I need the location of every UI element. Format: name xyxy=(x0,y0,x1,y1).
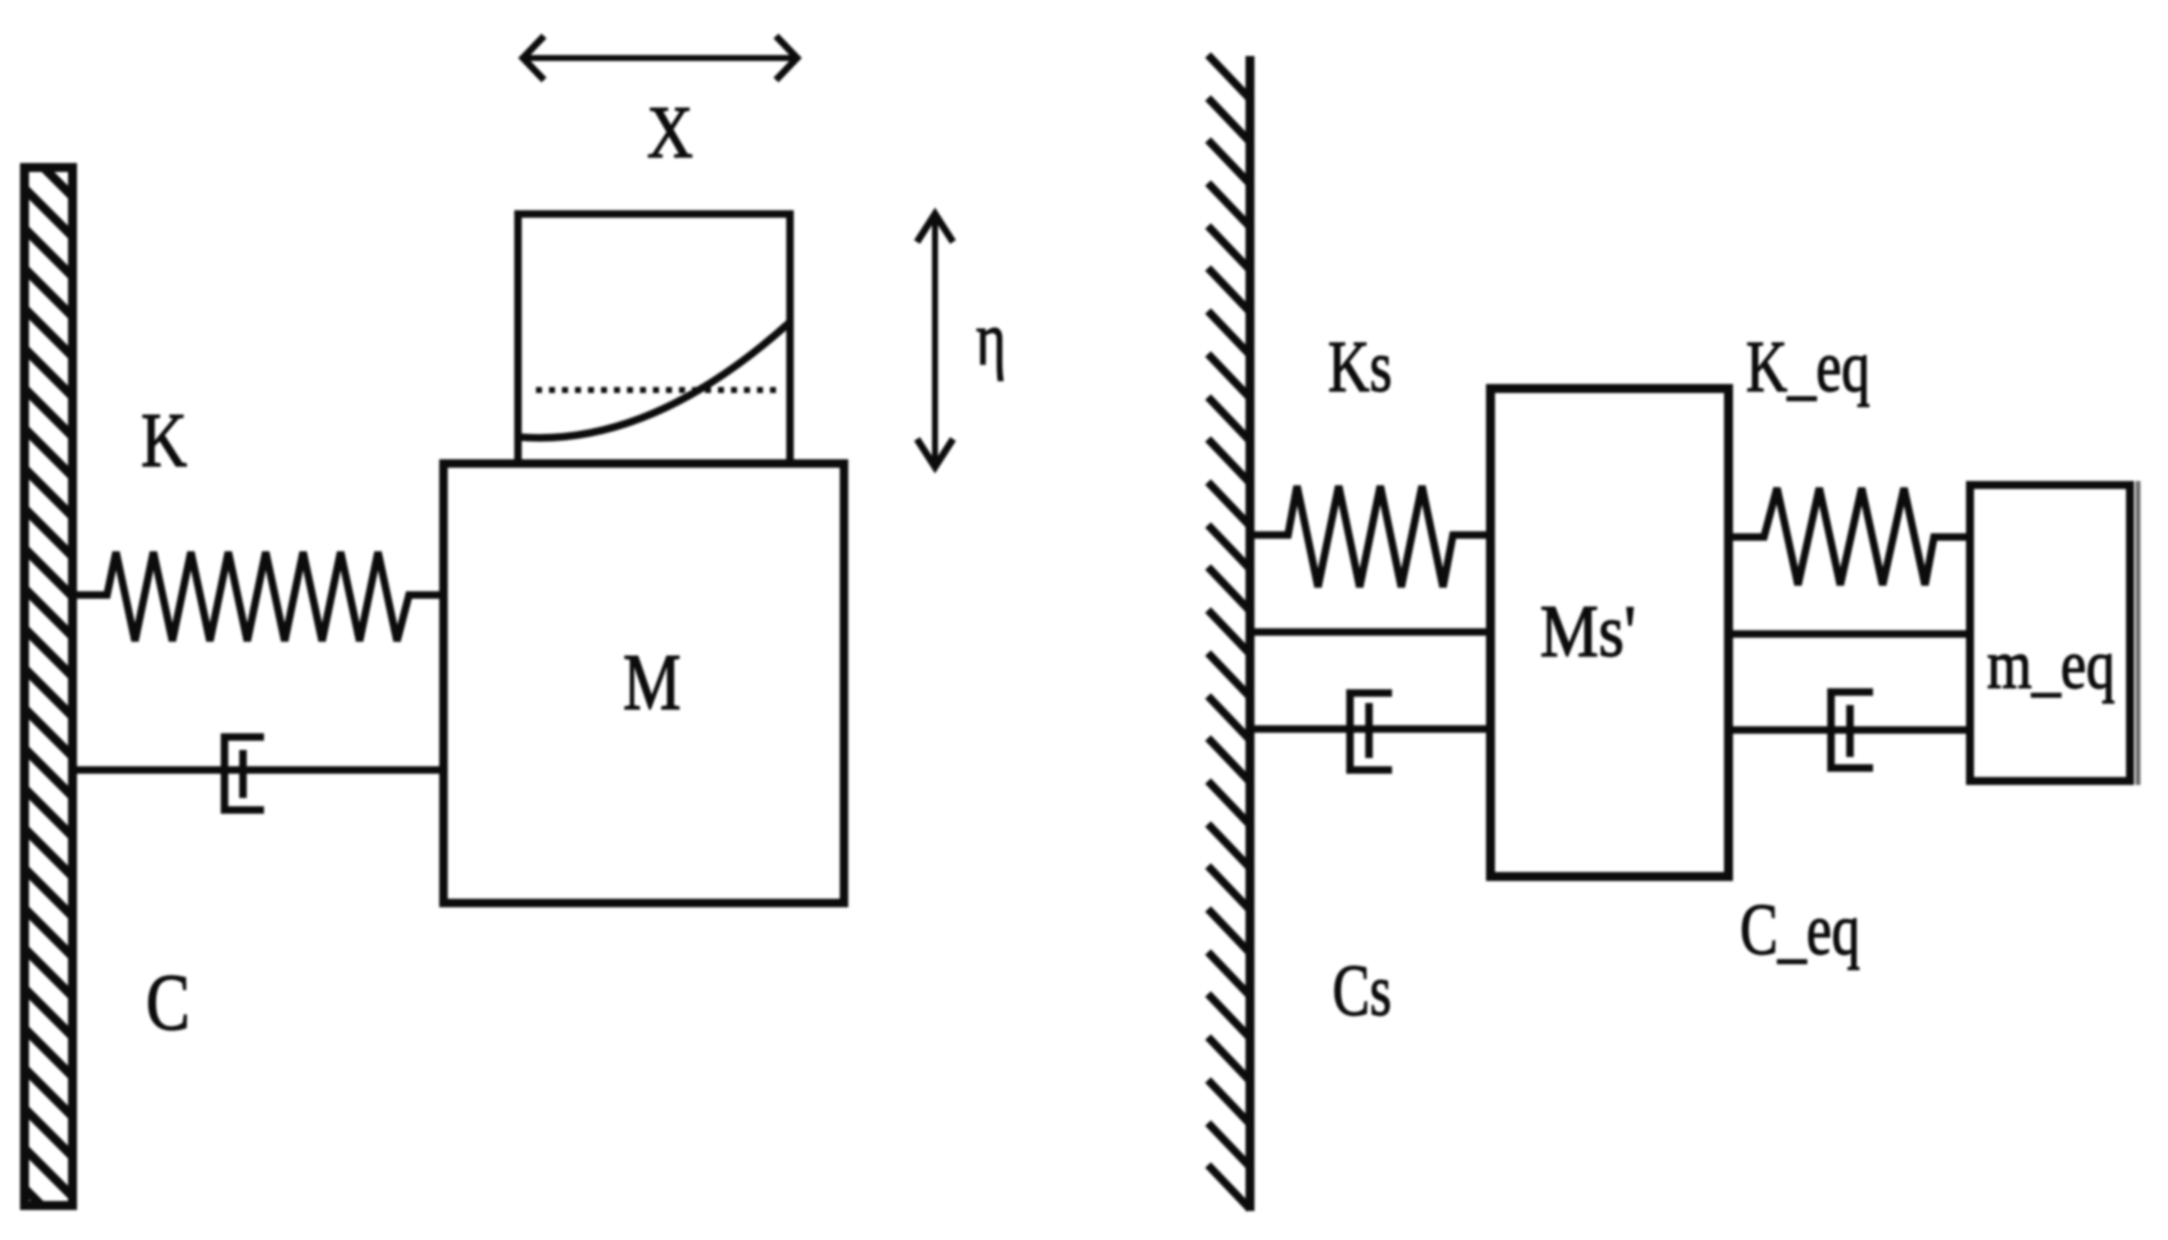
mass m_eq box xyxy=(1970,485,2130,781)
liquid free-surface curve xyxy=(518,322,790,438)
mean liquid level dotted line xyxy=(536,387,776,393)
spring K xyxy=(76,552,446,641)
eta arrow xyxy=(917,214,953,467)
damper Cs piston xyxy=(1365,703,1373,758)
right fixed wall line xyxy=(1246,56,1255,1211)
mass Ms' box xyxy=(1491,389,1729,877)
svg-text:K_eq: K_eq xyxy=(1746,326,1870,407)
damper C piston xyxy=(239,750,247,798)
svg-text:Ks: Ks xyxy=(1328,326,1392,407)
svg-text:η: η xyxy=(976,297,1006,381)
mass M box xyxy=(444,464,845,904)
svg-text:m_eq: m_eq xyxy=(1987,627,2115,704)
damper C cylinder xyxy=(225,737,265,810)
svg-text:C: C xyxy=(146,959,190,1047)
svg-text:K: K xyxy=(141,397,187,483)
X displacement arrow xyxy=(523,36,797,80)
wire middle link left xyxy=(1254,628,1492,636)
svg-text:Cs: Cs xyxy=(1333,950,1392,1031)
svg-text:M: M xyxy=(623,639,681,727)
wire middle link right xyxy=(1727,630,1972,638)
right wall hatch ticks xyxy=(1208,55,1250,1209)
damper C_eq cylinder xyxy=(1831,692,1873,768)
spring Ks xyxy=(1252,486,1492,587)
damper Cs cylinder xyxy=(1350,693,1392,770)
wire damper rod Cs xyxy=(1254,725,1492,733)
svg-text:C_eq: C_eq xyxy=(1740,889,1860,970)
svg-text:Ms': Ms' xyxy=(1540,591,1636,673)
spring K_eq xyxy=(1727,488,1972,585)
damper C_eq piston xyxy=(1846,705,1854,757)
wire damper rod C xyxy=(76,766,446,774)
svg-text:X: X xyxy=(647,92,693,174)
wire damper rod C_eq xyxy=(1727,726,1972,734)
tank on mass M xyxy=(518,214,790,461)
m_eq right double line xyxy=(2136,481,2141,785)
